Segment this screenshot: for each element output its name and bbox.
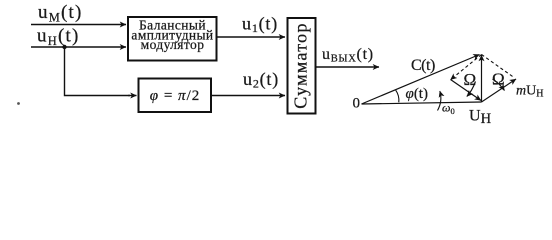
side left vertex to foot with arrowhead <box>451 80 482 101</box>
rotation arrow omega0 <box>438 91 441 111</box>
svg-text:UН: UН <box>469 108 492 128</box>
svg-text:Сумматор: Сумматор <box>291 22 311 109</box>
svg-text:u1(t): u1(t) <box>242 14 278 36</box>
vector foot to right vertex mU_N <box>482 79 517 102</box>
vector U_N carrier <box>481 55 483 102</box>
wire arrow into phase box <box>128 95 137 97</box>
svg-text:Ω: Ω <box>492 70 505 89</box>
svg-text:mUН: mUН <box>516 84 543 100</box>
wire u_N input <box>31 46 126 48</box>
svg-text:модулятор: модулятор <box>141 37 205 52</box>
stray dot <box>17 102 20 105</box>
svg-text:φ(t): φ(t) <box>406 86 428 102</box>
arc phi(t) <box>396 90 399 102</box>
wire horizontal axis <box>362 102 482 104</box>
dashed side apex to right vertex <box>482 55 515 78</box>
svg-text:u2(t): u2(t) <box>243 69 279 91</box>
wire u_M input <box>31 24 126 26</box>
svg-text:uВЫХ(t): uВЫХ(t) <box>322 46 374 65</box>
svg-text:φ = π/2: φ = π/2 <box>150 88 200 104</box>
vector C(t) <box>362 55 480 105</box>
svg-text:C(t): C(t) <box>411 57 435 74</box>
node junction dot <box>62 45 66 49</box>
rotation arrow Omega left <box>467 82 476 97</box>
block summer (Summator) <box>288 18 316 114</box>
svg-text:uМ(t): uМ(t) <box>38 2 83 25</box>
block phase shifter phi=pi/2 <box>139 79 212 113</box>
wire summer output <box>317 66 380 68</box>
wire u2 phase box to summer <box>211 95 285 97</box>
svg-text:0: 0 <box>353 96 361 112</box>
dashed side apex to left vertex <box>451 55 482 80</box>
svg-text:uН(t): uН(t) <box>37 26 79 49</box>
wire u1 modulator to summer <box>217 36 286 38</box>
block balanced amplitude modulator <box>128 17 217 61</box>
rotation arrow Omega right <box>493 79 505 91</box>
wire junction drop to phase box <box>65 47 131 96</box>
svg-text:Ω: Ω <box>464 70 477 89</box>
